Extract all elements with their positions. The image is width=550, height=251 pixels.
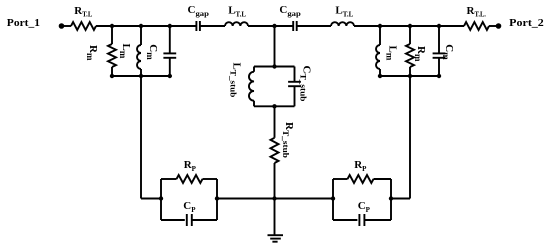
- svg-text:Cgap: Cgap: [279, 4, 300, 18]
- svg-text:Rm: Rm: [413, 46, 427, 62]
- svg-text:Cm: Cm: [441, 44, 455, 60]
- svg-text:CT_stub: CT_stub: [299, 66, 313, 103]
- svg-text:RT_stub: RT_stub: [281, 122, 295, 159]
- svg-text:Port_1: Port_1: [7, 17, 40, 29]
- svg-text:Rm: Rm: [85, 45, 99, 61]
- svg-text:Lm: Lm: [118, 44, 132, 59]
- svg-text:RT.L: RT.L: [74, 5, 92, 19]
- svg-text:CP: CP: [183, 200, 196, 214]
- svg-text:Cm: Cm: [145, 44, 159, 60]
- svg-text:RT.L.: RT.L.: [467, 5, 487, 19]
- svg-text:Port_2: Port_2: [509, 17, 544, 29]
- svg-text:RP: RP: [184, 159, 197, 173]
- svg-text:Lm: Lm: [385, 46, 399, 61]
- svg-text:LT.L: LT.L: [335, 5, 353, 19]
- svg-text:CP: CP: [358, 200, 371, 214]
- svg-text:Cgap: Cgap: [188, 4, 209, 18]
- svg-text:LT_stub: LT_stub: [229, 63, 243, 98]
- svg-text:LT.L: LT.L: [228, 5, 246, 19]
- svg-text:RP: RP: [354, 159, 367, 173]
